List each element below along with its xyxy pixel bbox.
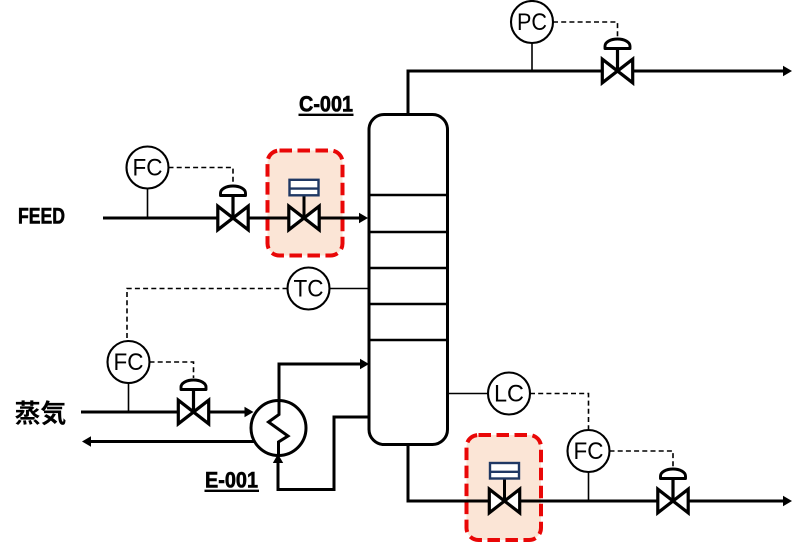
signal FC1 to valve V1 xyxy=(169,168,234,185)
label E-001 xyxy=(205,468,260,493)
valve V2 (highlighted feed block valve) xyxy=(289,180,319,230)
signal FC2 to valve V4 xyxy=(150,362,194,378)
controller LC (column level) xyxy=(488,373,530,415)
controller FC3 (bottoms flow) xyxy=(568,430,610,472)
label steam (Japanese) xyxy=(15,400,65,425)
lead LC to column xyxy=(449,393,489,395)
label C-001 xyxy=(299,92,354,117)
wire: overhead vapour pipe from column top xyxy=(408,66,792,116)
lead FC3 to bottoms pipe xyxy=(588,472,590,500)
highlight box H1 (feed control valve) xyxy=(268,151,343,256)
svg-text:LC: LC xyxy=(494,381,524,408)
svg-text:FC: FC xyxy=(133,155,163,182)
wire: condensate return pipe xyxy=(82,436,256,446)
tray 4 xyxy=(369,303,448,306)
tray 1 xyxy=(369,194,448,197)
wire: feed pipe xyxy=(103,213,368,223)
signal FC3 to valve V6 xyxy=(610,451,674,468)
controller FC2 (steam flow) xyxy=(108,341,150,383)
lead FC2 to steam pipe xyxy=(128,383,130,411)
lead TC to column xyxy=(330,288,369,290)
controller TC (column temperature) xyxy=(288,268,330,310)
controller PC (column pressure) xyxy=(511,1,553,43)
tray 5 xyxy=(369,339,448,342)
reboiler E-001 xyxy=(251,401,306,456)
valve V4 (steam control valve) xyxy=(178,380,208,424)
valve V6 (bottoms control valve) xyxy=(658,469,688,513)
svg-text:PC: PC xyxy=(517,9,547,36)
svg-text:FC: FC xyxy=(574,438,604,465)
svg-text:FC: FC xyxy=(114,349,144,376)
svg-text:TC: TC xyxy=(294,276,324,303)
tray 3 xyxy=(369,267,448,270)
signal PC to valve V3 xyxy=(553,22,618,37)
svg-text:C-001: C-001 xyxy=(299,92,353,117)
svg-text:FEED: FEED xyxy=(18,204,65,229)
wire: steam supply pipe xyxy=(81,407,254,417)
controller FC1 (feed flow) xyxy=(127,147,169,189)
valve V1 (feed control valve) xyxy=(218,186,248,230)
lead PC to overhead pipe xyxy=(531,43,533,70)
valve V5 (highlighted bottoms block valve) xyxy=(489,463,519,513)
signal LC to FC3 xyxy=(530,394,589,430)
wire: bottom product pipe xyxy=(408,444,792,506)
lead FC1 to feed pipe xyxy=(147,189,149,217)
tray 2 xyxy=(369,231,448,234)
signal TC to FC2 xyxy=(127,289,288,341)
svg-text:E-001: E-001 xyxy=(205,468,258,493)
valve V3 (overhead control valve) xyxy=(602,39,632,83)
column C-001 vessel xyxy=(369,115,448,445)
wire: column bottoms to reboiler xyxy=(273,417,369,490)
label FEED xyxy=(18,204,65,229)
highlight box H2 (bottoms control valve) xyxy=(467,435,542,540)
wire: reboiler vapour return to column xyxy=(279,359,369,401)
